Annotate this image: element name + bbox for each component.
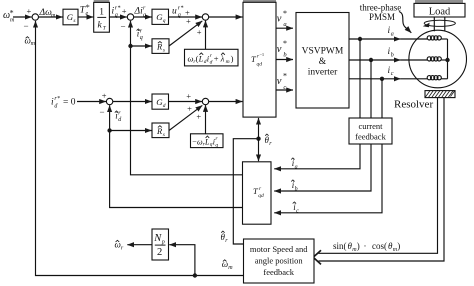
label v*_a [277,9,287,28]
shaft left line [433,17,435,31]
wire Gs to kT [78,16,93,18]
wire junction to Rs2 [110,130,152,132]
gray cap above Load block [415,0,463,3]
wire feedback i_d^r from Tqd block up into D1 [110,105,243,207]
node junction dot phase a [358,37,362,41]
svg-text:*: * [283,9,287,18]
svg-text:current: current [358,121,383,131]
block Tqd-inverse transform [243,2,276,117]
node star point dot [445,58,449,62]
wire omega_r block up into S3 [205,21,207,50]
svg-text:−1: −1 [259,52,264,57]
wire input to sum D1 [77,101,106,103]
block current feedback [349,118,392,144]
svg-text:m: m [228,265,233,271]
pointer curve from label to motor [399,12,411,33]
wire input to sum S1 [13,16,32,18]
wire branch to Np block [169,245,195,276]
wire v*_c to inverter [276,89,293,91]
svg-text:feedback: feedback [355,132,386,142]
svg-text:motor Speed and: motor Speed and [250,244,308,254]
block VSVPWM inverter [296,13,349,109]
svg-text:q: q [163,18,166,24]
svg-text:q: q [178,13,181,19]
svg-text:a: a [391,31,394,37]
block Np over 2 [152,229,169,260]
svg-text:L: L [198,54,204,64]
wire S1 to Gs [39,16,63,18]
svg-text:PMSM: PMSM [369,12,395,22]
svg-text:m: m [31,41,36,47]
wire v*_a to inverter [276,27,293,29]
rotation ellipse on shaft [424,20,455,26]
svg-text:b: b [295,186,298,192]
wire Gq to sum S3 [169,16,203,18]
node sum junction D1 [106,98,112,104]
wire current feedback line c down [381,79,383,118]
svg-text:e: e [86,11,89,17]
winding coil phase a [427,36,441,40]
svg-text:+: + [187,104,192,114]
wire diagonal Rs1 to S3 [169,21,202,46]
svg-text:−: − [121,22,126,32]
label omega-hat_m at S1 [25,36,36,48]
svg-text:Load: Load [429,6,451,17]
svg-text:m: m [226,59,230,65]
svg-text:1: 1 [99,7,104,17]
wire i-hat_b into Tqd [274,144,371,191]
motor stator circle (three-phase PMSM) [409,30,467,88]
label sin cos [333,241,400,253]
label omega-hat_r [115,240,124,252]
wire kT to sum S2 [109,16,126,18]
winding coil phase b [427,57,441,61]
svg-text:= 0: = 0 [63,98,76,108]
svg-text:feedback: feedback [263,267,294,277]
label i_a [388,26,394,37]
node junction dot on i_q feedback [128,44,132,48]
wire coil c lead to star bus [441,78,447,80]
wire feedback i_q^r from Tqd block up into S2 [131,21,243,175]
svg-text:): ) [397,241,400,251]
svg-text:u: u [172,7,177,17]
wire coil a lead to star bus [441,38,447,40]
svg-text:+: + [102,91,107,101]
svg-text:p: p [161,239,165,245]
svg-text:q: q [140,35,143,41]
wire resolver output outer [319,98,445,261]
wire resolver output inner [319,98,438,254]
wire i-hat_a into Tqd [274,144,360,169]
svg-text:d: d [163,103,166,109]
svg-text:+: + [186,16,191,26]
block Gq [152,9,169,24]
block omega_r(Ld id + lambda_m) [185,49,239,66]
rotation arrowhead [423,23,430,28]
label T*_e [80,3,90,17]
svg-text:VSVPWM: VSVPWM [302,47,344,57]
svg-text:+: + [27,6,32,16]
label i_b [388,47,394,58]
node junction dot phase c [380,77,384,81]
svg-text:qd: qd [258,193,264,199]
node sum junction D2 [202,98,208,104]
svg-text:+: + [196,112,201,122]
svg-text:v: v [277,13,282,24]
svg-text:Resolver: Resolver [394,99,433,111]
label i-hat_c [293,202,299,214]
svg-text:q: q [143,13,146,19]
label omega-hat_m lower [222,259,233,271]
label u_q^r* [172,6,184,19]
wire theta down into Tqd [258,139,260,162]
gray cap above Tqd-inverse block [243,0,276,2]
svg-text:s: s [73,18,75,24]
wire S2 to Gq [134,16,152,18]
svg-text:v: v [277,44,282,55]
svg-text:*: * [57,96,60,102]
shaft right line [444,17,446,31]
svg-text:qd: qd [257,61,263,67]
wire theta up into Tqd-inverse [258,118,260,139]
node junction dot on i_d feedback [107,128,111,132]
wire S3 to Tqd-inverse block [209,16,243,18]
svg-text:): ) [357,241,360,251]
wire i-hat_c into Tqd [274,144,382,213]
svg-text:): ) [231,54,234,64]
label v*_c [277,72,287,91]
svg-text:a: a [295,164,298,170]
node sum junction S1 [32,14,38,20]
svg-text:q: q [115,13,118,19]
block motor speed and angle position feedback [244,239,315,283]
svg-text:s: s [163,132,165,138]
label i-hat_a [291,158,297,170]
wire theta-hat from feedback box up [233,139,256,244]
node junction dot phase b [369,58,373,62]
svg-text:s: s [163,48,165,54]
svg-text:Δi: Δi [134,7,144,17]
block Load [414,3,465,17]
svg-text:m: m [51,13,56,19]
label i-hat_d^r [115,110,123,123]
node sum junction S2 [127,14,133,20]
svg-text:*: * [283,72,287,81]
svg-text:v: v [277,76,282,87]
wire phase c from inverter to motor [349,78,401,80]
svg-text:a: a [283,21,286,28]
block Rs1 (R-hat_s) [152,39,169,54]
svg-text:*: * [10,8,14,17]
svg-text:&: & [319,57,327,67]
svg-text:*: * [283,39,287,48]
block Gd [152,94,169,109]
wire Gd to sum D2 [169,101,203,103]
wire coil b lead to star bus [441,59,447,61]
wire star point bus [447,39,449,79]
label i_d^r* = 0 [51,96,76,110]
label i-hat_b [291,180,297,192]
resolver hatched block [425,91,455,98]
svg-text:b: b [391,52,394,58]
wire minus omega block up into D2 [205,105,207,134]
wire D1 to Gd [113,101,152,103]
svg-text:angle position: angle position [255,256,304,266]
label i_q^r* [112,6,121,19]
wire current feedback line b down [370,60,372,118]
wire diagonal Rs2 to D2 [169,105,202,130]
wire junction to Rs1 [131,45,152,47]
block Rs2 (R-hat_s) [152,123,169,138]
block Tqd transform [243,162,272,224]
svg-text:sin(: sin( [333,241,347,251]
svg-text:+: + [197,27,202,37]
node sum junction S3 [202,14,208,20]
label omega*_m input [3,8,15,23]
wire Np output omega-hat_r [127,244,152,246]
wire D2 to Tqd-inverse block [209,101,243,103]
wire phase b from inverter to motor [349,59,401,61]
label theta-hat_r mid [265,134,273,147]
block minus omega_r Lq iq [191,134,224,149]
svg-text:−: − [24,21,29,31]
svg-text:*: * [118,6,121,12]
svg-text:+: + [122,6,127,16]
label v*_b [277,39,288,58]
node junction dot bottom [193,273,197,277]
wire omega-hat_m feedback bottom [36,21,244,276]
svg-text:m: m [10,17,15,23]
label i_c [388,66,394,77]
wire v*_b to inverter [276,59,293,61]
block 1/kT [94,2,110,32]
wire current feedback line a down [359,39,361,118]
label delta omega_m [39,8,57,19]
block Gs [63,9,78,25]
svg-text:c: c [296,208,299,214]
svg-text:2: 2 [157,247,162,258]
label delta i_q^r [134,6,147,19]
svg-text:−: − [100,107,105,117]
svg-text:+: + [186,91,191,101]
label i-hat_q^r [137,28,143,41]
label three-phase PMSM [360,3,401,22]
winding coil phase c [427,76,441,80]
svg-text:d: d [210,60,213,66]
svg-text:q: q [215,142,218,148]
svg-text:cos(: cos( [372,241,387,251]
svg-text:·: · [364,241,367,251]
svg-text:*: * [181,6,184,12]
svg-text:inverter: inverter [308,68,338,78]
hollow arrow into feedback block [313,250,321,264]
svg-text:+: + [214,54,219,64]
node junction dot theta line [256,137,260,141]
label theta-hat_r lower [221,231,229,244]
svg-text:c: c [391,71,394,77]
gray cap above 1/kT block [94,0,110,2]
svg-text:c: c [283,84,286,91]
wire phase a from inverter to motor [349,38,401,40]
svg-text:λ: λ [220,54,225,64]
